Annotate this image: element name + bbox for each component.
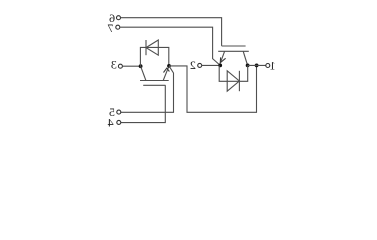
terminal 7 xyxy=(108,21,120,35)
svg-text:5: 5 xyxy=(109,105,115,119)
terminal 2 xyxy=(190,58,202,72)
terminal 1 xyxy=(266,58,276,72)
gate lead Q1 to terminal 4 xyxy=(121,85,166,122)
transistor Q1 xyxy=(140,66,169,85)
transistor Q2 xyxy=(218,46,249,65)
svg-text:1: 1 xyxy=(270,58,276,72)
node mid xyxy=(255,64,259,68)
aux emitter wire Q1 to terminal 5 xyxy=(121,66,174,112)
diode D1 xyxy=(140,40,168,66)
wire E1 to loop xyxy=(169,65,257,112)
node C1 xyxy=(139,64,143,68)
wire 7 to emitter of Q2 xyxy=(120,27,220,65)
svg-text:7: 7 xyxy=(108,21,114,35)
node C2 xyxy=(246,64,250,68)
mirrored schematic group xyxy=(108,11,276,129)
terminal 3 xyxy=(111,58,123,72)
diode D2 xyxy=(219,65,248,91)
terminal 6 xyxy=(109,11,120,25)
wire 6 to gate of Q2 xyxy=(121,18,222,46)
svg-text:3: 3 xyxy=(111,58,117,72)
terminal 5 xyxy=(109,105,121,119)
node E1 xyxy=(167,64,171,68)
node E2 xyxy=(218,64,222,68)
svg-text:2: 2 xyxy=(190,58,196,72)
wire 2 to node E2 xyxy=(202,64,221,66)
terminal 4 xyxy=(108,115,121,129)
wire 3 to node C1 xyxy=(122,65,140,67)
wire to terminal 1 xyxy=(248,64,266,66)
